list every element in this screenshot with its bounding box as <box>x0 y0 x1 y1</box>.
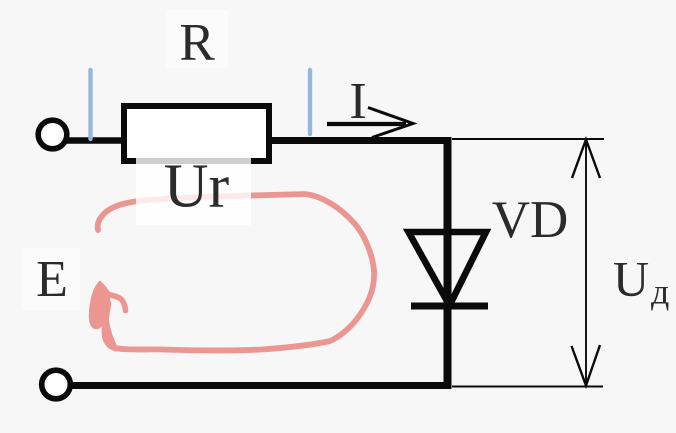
svg-text:Ur: Ur <box>164 153 230 221</box>
current loop arrow stem (pink) <box>105 307 116 349</box>
svg-text:VD: VD <box>492 191 569 249</box>
dimension line Ud (vertical) <box>585 139 587 386</box>
wire: bottom return <box>70 382 452 389</box>
label R background <box>166 10 228 68</box>
resistor R body <box>124 106 269 161</box>
terminal (top-left input) <box>38 120 67 149</box>
current loop (pink freehand) <box>98 194 374 350</box>
current loop arrowhead left lobe (pink) <box>90 282 110 328</box>
svg-text:R: R <box>179 14 215 72</box>
diode VD cathode bar <box>411 303 488 310</box>
diode VD (triangle, anode) <box>409 232 487 306</box>
svg-text:E: E <box>36 251 68 308</box>
probe mark right (blue) <box>308 70 312 134</box>
svg-text:U: U <box>613 251 649 307</box>
wire: right vertical branch <box>444 137 452 389</box>
dimension arrowhead top <box>572 140 600 179</box>
probe mark left (blue) <box>88 70 92 139</box>
current loop arrowhead right wing (pink) <box>105 294 126 311</box>
extension line top (dimension) <box>452 138 604 140</box>
label E background <box>22 248 80 310</box>
dimension arrowhead bottom <box>572 345 601 386</box>
svg-text:д: д <box>651 272 669 312</box>
wire: top terminal to resistor <box>66 137 127 144</box>
svg-text:I: I <box>349 73 366 130</box>
label Ur background <box>136 145 251 225</box>
current arrow I (shaft) <box>327 122 406 126</box>
terminal (bottom-left input) <box>42 370 71 399</box>
wire: resistor to top-right corner <box>269 137 451 144</box>
extension line bottom (dimension) <box>452 386 603 388</box>
current arrow I (open head) <box>368 108 413 138</box>
